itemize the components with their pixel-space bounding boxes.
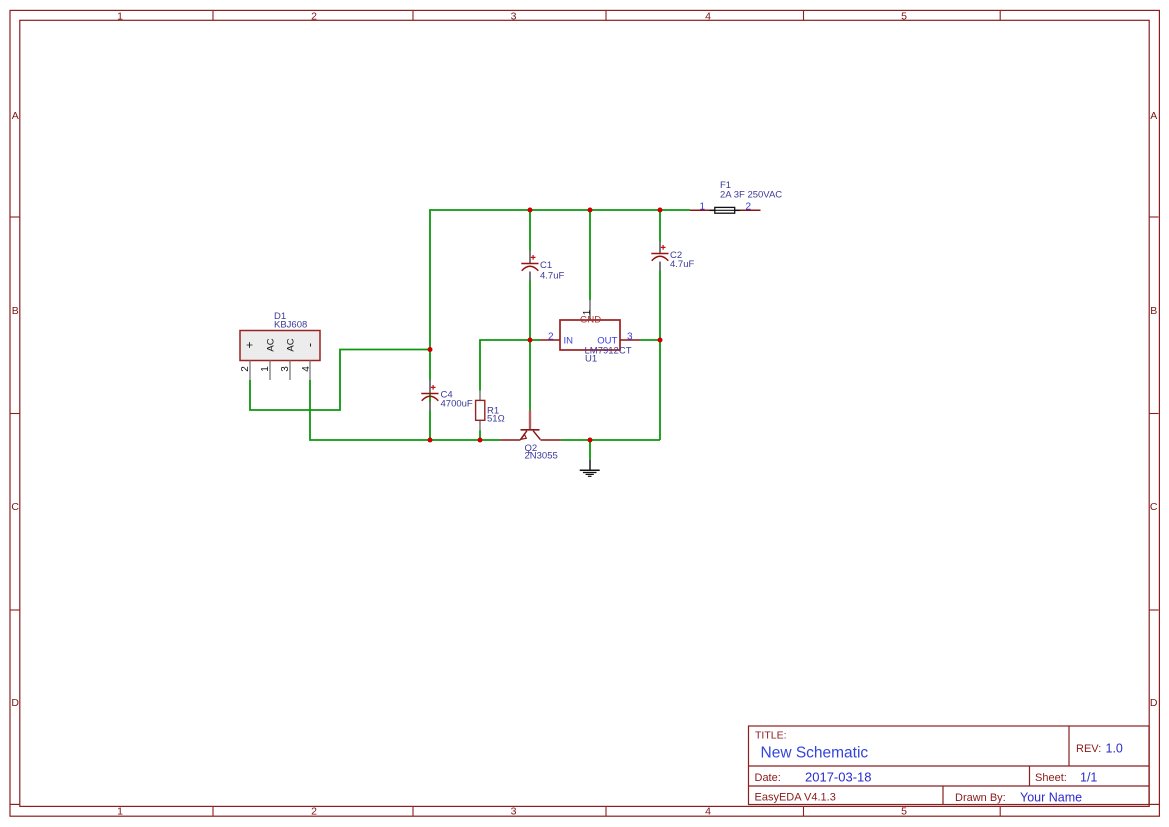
- svg-text:3: 3: [511, 806, 517, 818]
- wire bottom rail right (Q2 collector to C2 branch): [561, 439, 660, 441]
- svg-text:KBJ608: KBJ608: [274, 320, 307, 331]
- svg-text:B: B: [12, 305, 19, 317]
- capacitor C1: [521, 251, 564, 282]
- svg-text:Drawn By:: Drawn By:: [955, 792, 1006, 804]
- wire top rail with left vertical drop (D1+ node to F1 pin1): [430, 210, 690, 440]
- svg-text:1: 1: [117, 11, 123, 23]
- svg-text:Your Name: Your Name: [1020, 791, 1082, 805]
- fuse F1: [690, 180, 782, 213]
- svg-text:3: 3: [280, 366, 291, 372]
- junction U1 OUT node: [658, 338, 663, 343]
- junction left vertical on bottom rail: [428, 438, 433, 443]
- wire from D1 pin4 (-) along bottom rail to Q2 emitter: [310, 380, 500, 440]
- svg-text:C: C: [11, 501, 19, 513]
- svg-text:EasyEDA V4.1.3: EasyEDA V4.1.3: [755, 792, 836, 804]
- voltage regulator U1: [540, 300, 640, 365]
- svg-text:New Schematic: New Schematic: [761, 745, 869, 762]
- svg-text:B: B: [1150, 305, 1157, 317]
- wire C2 branch down to bottom rail: [659, 271, 661, 441]
- wire C1 bottom through U1-IN node to Q2 base: [529, 281, 531, 411]
- svg-text:51Ω: 51Ω: [487, 413, 505, 424]
- svg-text:2: 2: [240, 366, 251, 372]
- svg-text:4: 4: [705, 11, 711, 23]
- svg-text:1.0: 1.0: [1106, 742, 1123, 756]
- svg-text:Sheet:: Sheet:: [1035, 772, 1067, 784]
- svg-text:4.7uF: 4.7uF: [540, 270, 564, 281]
- svg-text:GND: GND: [580, 315, 601, 326]
- junction U1 IN node: [528, 338, 533, 343]
- svg-text:5: 5: [901, 806, 907, 818]
- svg-text:A: A: [1150, 110, 1157, 122]
- svg-text:IN: IN: [564, 335, 574, 346]
- svg-text:-: -: [303, 343, 317, 347]
- D1 pin names + AC AC -: [243, 338, 317, 351]
- svg-text:4: 4: [301, 366, 312, 372]
- svg-text:3: 3: [627, 332, 633, 343]
- svg-text:TITLE:: TITLE:: [755, 730, 787, 742]
- svg-text:REV:: REV:: [1076, 743, 1101, 755]
- svg-text:+: +: [243, 341, 257, 348]
- svg-text:1: 1: [700, 202, 706, 213]
- bridge rectifier D1 body: [240, 331, 320, 361]
- title block: [749, 726, 1160, 805]
- svg-text:AC: AC: [266, 338, 277, 351]
- ground: [580, 460, 600, 476]
- svg-text:1: 1: [260, 366, 271, 372]
- svg-text:1: 1: [582, 309, 593, 315]
- svg-text:2: 2: [746, 202, 752, 213]
- svg-text:4: 4: [705, 806, 711, 818]
- svg-text:2017-03-18: 2017-03-18: [805, 770, 872, 785]
- svg-text:Date:: Date:: [755, 772, 781, 784]
- junction node A (D1+ wire on left vertical): [428, 347, 433, 352]
- D1 pin numbers 2 1 3 4: [240, 366, 312, 372]
- wire U1 GND pin up to top rail: [589, 210, 591, 300]
- wire U1-IN node to R1 top: [480, 340, 540, 391]
- wire R1 bottom to rail: [479, 431, 481, 441]
- svg-text:2N3055: 2N3055: [525, 451, 558, 462]
- junction R1 on bottom rail: [478, 438, 483, 443]
- resistor R1: [476, 391, 505, 431]
- D1 pin stubs: [250, 361, 310, 381]
- wire C2 top link to rail: [659, 210, 661, 242]
- capacitor C2: [651, 242, 694, 271]
- junction ground on bottom rail: [588, 438, 593, 443]
- svg-text:2: 2: [311, 806, 317, 818]
- junction C2 on top rail: [658, 208, 663, 213]
- wire ground drop: [589, 440, 591, 460]
- svg-text:A: A: [12, 110, 19, 122]
- svg-text:U1: U1: [585, 354, 597, 365]
- capacitor C4: [421, 380, 473, 411]
- svg-text:1/1: 1/1: [1080, 771, 1097, 785]
- svg-text:2: 2: [548, 332, 554, 343]
- wire U1 OUT link to C2 branch: [640, 339, 660, 341]
- svg-text:D: D: [11, 697, 19, 709]
- junction C1 on top rail: [528, 208, 533, 213]
- svg-text:4.7uF: 4.7uF: [670, 259, 694, 270]
- svg-text:2: 2: [311, 11, 317, 23]
- svg-text:3: 3: [511, 11, 517, 23]
- svg-text:AC: AC: [286, 338, 297, 351]
- wire from D1 pin2 (+) to node A on left vertical: [250, 350, 430, 411]
- svg-text:1: 1: [117, 806, 123, 818]
- transistor Q2: [500, 411, 561, 462]
- svg-text:2A 3F 250VAC: 2A 3F 250VAC: [720, 190, 782, 201]
- svg-text:5: 5: [901, 11, 907, 23]
- junction U1 GND branch on top rail: [588, 208, 593, 213]
- svg-text:C: C: [1150, 501, 1158, 513]
- wire C1 top link to rail: [529, 210, 531, 251]
- svg-text:4700uF: 4700uF: [441, 399, 473, 410]
- svg-text:D: D: [1150, 697, 1158, 709]
